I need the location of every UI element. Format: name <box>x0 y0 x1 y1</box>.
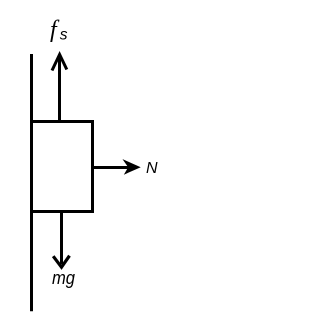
wall (vertical line) <box>30 54 33 311</box>
force arrow N - arrowhead <box>125 161 140 173</box>
svg-text:N: N <box>146 160 158 177</box>
svg-text:f: f <box>50 17 60 43</box>
svg-text:s: s <box>60 27 68 44</box>
force arrow mg - arrowhead <box>53 256 69 268</box>
svg-text:mg: mg <box>52 268 75 288</box>
force arrow N (normal, rightward) - shaft <box>94 166 134 169</box>
force arrow fs - arrowhead <box>52 55 67 71</box>
force arrow mg (weight, downward) - shaft <box>60 213 63 264</box>
block (rectangle) <box>32 122 93 212</box>
force arrow fs (friction, upward) - shaft <box>58 56 61 120</box>
